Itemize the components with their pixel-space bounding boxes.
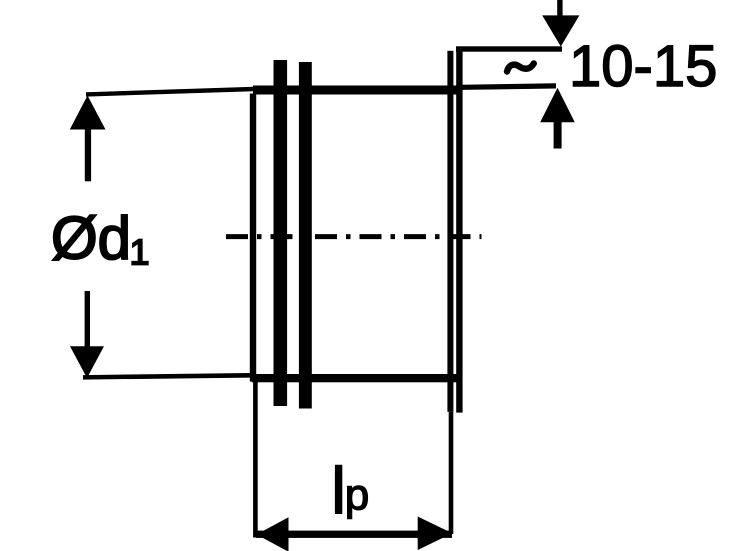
arrow up onto pipe top edge: [540, 88, 575, 122]
pipe left end line: [250, 94, 256, 382]
svg-text:Ød: Ød: [51, 205, 131, 272]
Od1 bottom extension line: [83, 373, 250, 380]
flange line inner: [447, 51, 453, 412]
Od1 top extension line: [86, 87, 254, 97]
lp dimension line: [256, 531, 452, 538]
lp right extension line: [449, 412, 454, 534]
pipe top edge: [253, 86, 463, 95]
svg-text:p: p: [345, 471, 369, 520]
svg-text:l: l: [331, 454, 346, 528]
flange top dimension line upper: [456, 46, 562, 51]
label ~ (approx sign): [507, 64, 534, 72]
bead ring 2: [299, 62, 312, 409]
lp left extension line: [253, 381, 258, 538]
flange line outer: [456, 48, 462, 413]
lp arrow left: [257, 517, 289, 551]
Od1 dimension arrow up: [70, 96, 106, 130]
pipe bottom edge: [252, 374, 458, 382]
svg-text:10-15: 10-15: [569, 34, 717, 99]
bead ring 1: [274, 60, 288, 406]
lp arrow right: [418, 517, 453, 551]
flange top dimension line lower: [462, 83, 557, 90]
Od1 dimension arrow down: [70, 346, 104, 378]
arrow down onto flange top: [557, 0, 562, 16]
svg-text:1: 1: [130, 232, 150, 273]
centerline of pipe axis: [226, 234, 482, 239]
